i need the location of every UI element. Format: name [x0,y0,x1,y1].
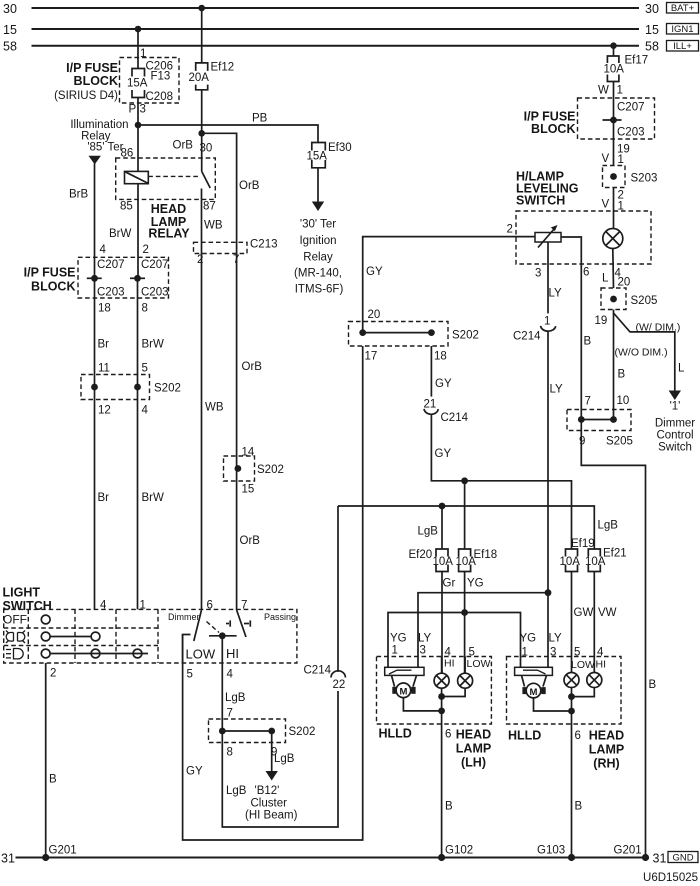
dimmer HI contact bar with node [209,620,237,639]
svg-text:Br: Br [98,492,110,504]
svg-text:S205: S205 [631,295,658,307]
svg-text:C203: C203 [97,287,125,299]
svg-text:BrW: BrW [142,492,165,504]
relay HEAD LAMP RELAY dashed box [116,158,216,199]
wire S203 to indicator lamp [613,188,615,229]
fuse Ef30 15A [307,142,352,168]
svg-text:(W/ DIM.): (W/ DIM.) [636,322,681,334]
svg-text:17: 17 [365,351,378,363]
svg-text:Ef20: Ef20 [409,549,433,561]
svg-text:LIGHT: LIGHT [3,586,41,600]
icon: headlamp [6,649,23,659]
svg-text:2: 2 [507,224,513,236]
light switch / head lamp switch dashed box [4,609,297,663]
splice bridge and nodes [359,329,434,336]
connector C214 pin 1 [513,316,556,343]
svg-text:20: 20 [618,277,631,289]
svg-text:6: 6 [445,729,451,741]
label LIGHT SWITCH [3,586,52,614]
svg-text:15: 15 [3,23,17,37]
wire GY to Ef18 [464,481,466,549]
wire B: leveling pin 6 down to S205 pin 7 [580,264,582,420]
svg-text:1: 1 [522,647,528,659]
svg-text:18: 18 [98,303,111,315]
svg-text:GY: GY [435,378,452,390]
LH head lamp dashed box [377,657,492,725]
passing switch arm [237,610,246,637]
wires lamps to pin 6 with nodes [438,688,465,724]
LH HI beam lamp [434,657,449,689]
dimmer switch arm [194,610,202,641]
svg-text:HI: HI [596,659,607,671]
icon: parking lamps [6,631,25,644]
wire YG: Ef18 down to LH LOW lamp [464,572,466,674]
svg-text:15A: 15A [127,78,148,90]
node: G201 ground dot (right) [614,845,650,862]
svg-text:3: 3 [535,268,541,280]
svg-text:30: 30 [200,143,213,155]
svg-text:L: L [602,273,609,285]
svg-text:Cluster: Cluster [251,798,288,810]
svg-text:BrW: BrW [142,339,165,351]
svg-text:31: 31 [1,851,15,865]
wire L to dimmer control switch (W/ DIM.) [614,313,675,391]
arrow to illumination relay (up) [89,156,101,165]
splice S203 dashed box [603,166,658,188]
splice bridge and nodes [578,416,617,423]
svg-text:1: 1 [140,600,146,612]
HLLD motor [392,683,415,698]
svg-text:1: 1 [392,645,398,657]
wire BrW C207 to light switch pin 1 [137,278,139,609]
svg-text:Ef12: Ef12 [211,62,235,74]
svg-text:HEAD: HEAD [151,202,186,216]
svg-text:ILL+: ILL+ [673,41,692,52]
svg-text:30: 30 [645,2,659,16]
svg-text:2: 2 [143,244,149,256]
svg-text:HEAD: HEAD [456,728,491,742]
GND terminal box [668,852,698,864]
wire and arrow to B12 cluster [266,731,295,781]
wire GY S202-20 up and right to leveling switch pin 2 [363,237,535,333]
labels HI / LOW [444,658,491,671]
svg-text:Gr: Gr [443,578,456,590]
node: G201 ground dot (light switch) [42,845,77,862]
svg-text:1: 1 [544,316,550,328]
svg-text:IGN1: IGN1 [671,24,693,35]
svg-text:SWITCH: SWITCH [3,599,52,613]
svg-text:BrW: BrW [109,228,132,240]
wire bus58 to Ef17 [613,46,615,56]
fuse Ef18 10A [456,549,498,572]
labels YG 1 / LY 3 [520,633,563,659]
svg-text:5: 5 [187,669,193,681]
relay linkage (dashed) [148,175,200,177]
svg-text:LAMP: LAMP [456,742,491,756]
svg-text:9: 9 [579,436,585,448]
rheostat (leveling control) [535,225,561,248]
svg-text:LOW: LOW [467,658,491,670]
wire LY: C214-1 down to RH pin 3 [547,330,549,667]
svg-text:19: 19 [595,315,608,327]
svg-text:20: 20 [368,309,381,321]
svg-text:(LH): (LH) [461,756,486,770]
wire GY S202-18 down to C214-21 [430,346,432,397]
wire F13 to PB node, pin P3 [129,98,146,126]
bus line 58 (ILL+) [3,40,659,54]
labels YG 1 / LY 3 [390,633,432,657]
label HEAD LAMP (RH) [589,729,624,771]
svg-text:'1': '1' [670,401,681,413]
node: OrB branch junction [198,130,205,137]
wire GY C214-21 down, right to Ef19 feed [431,414,571,549]
wire label W, pin 1 [598,85,623,97]
svg-text:HI: HI [226,646,239,661]
node: splice dot on BrW [134,384,141,391]
I/P FUSE BLOCK label (left) [24,266,76,294]
svg-text:RELAY: RELAY [148,227,190,241]
node: splice dot on OrB [235,465,242,472]
svg-text:B: B [618,369,626,381]
svg-text:HI: HI [444,658,455,670]
svg-text:8: 8 [142,303,148,315]
svg-text:18: 18 [434,351,447,363]
svg-text:12: 12 [98,405,111,417]
svg-text:LY: LY [418,633,432,645]
svg-text:G102: G102 [445,845,473,857]
svg-text:SWITCH: SWITCH [516,194,565,208]
wire GW: Ef19 to RH LOW lamp [571,572,573,673]
svg-text:GY: GY [366,266,383,278]
svg-text:LgB: LgB [274,753,295,765]
svg-text:F13: F13 [151,71,171,83]
svg-text:YG: YG [520,633,537,645]
svg-text:G201: G201 [614,845,642,857]
svg-text:P: P [129,104,137,116]
bus line 30 (BAT+) [3,2,659,16]
fuse Ef21 10A [585,548,627,572]
internal dashed dividers [4,609,158,663]
svg-text:LY: LY [550,384,564,396]
svg-text:5: 5 [574,647,580,659]
svg-text:Ef17: Ef17 [625,55,649,67]
splice S202 (GY) dashed box [349,322,449,347]
I/P FUSE BLOCK label (right) [524,110,576,137]
svg-text:OrB: OrB [173,140,194,152]
wire 85 from coil down to C207 pin 2 [137,184,139,279]
svg-text:4: 4 [227,669,234,681]
svg-text:I/P FUSE: I/P FUSE [66,61,118,75]
svg-text:LgB: LgB [226,785,247,797]
splice S202 (Br/BrW) dashed box [81,375,150,400]
svg-text:2: 2 [197,254,203,266]
node: tap on bus 58 for Ef17 [610,42,617,49]
fuse Ef17 10A [604,55,649,82]
svg-text:6: 6 [207,600,213,612]
wire motor to pin 6 node [403,698,441,711]
svg-text:6: 6 [575,730,581,742]
svg-text:C207: C207 [141,259,169,271]
svg-text:LgB: LgB [598,520,619,532]
pin 4 / 5 labels [445,647,475,659]
wire LgB distribution to Ef21 [338,506,594,549]
switch contacts: headlamp row with bridge [41,649,148,658]
svg-text:4: 4 [142,405,149,417]
wire LgB: HI contact down to S202 splice [221,636,223,731]
svg-text:YG: YG [390,633,407,645]
svg-text:S202: S202 [289,726,316,738]
svg-text:GY: GY [435,448,452,460]
node: LY branch junction [545,589,552,596]
svg-text:B: B [445,801,453,813]
svg-text:Control: Control [656,430,693,442]
svg-text:7: 7 [227,708,233,720]
svg-text:C207: C207 [97,259,125,271]
wire LY branch to LH pin 3 [418,593,548,668]
svg-text:'B12': 'B12' [255,785,280,797]
svg-text:1: 1 [617,85,623,97]
arrow to dimmer control switch [669,391,681,401]
wire label V, pin 1 (below S203) [602,199,624,213]
svg-text:10A: 10A [604,64,625,76]
svg-text:W: W [598,85,609,97]
svg-text:8: 8 [227,747,233,759]
svg-text:2: 2 [50,668,56,680]
bus line 15 (IGN1) [3,23,659,37]
svg-text:C203: C203 [141,287,169,299]
svg-text:4: 4 [100,600,107,612]
wire VW: Ef21 to RH HI lamp [593,572,595,673]
svg-text:58: 58 [645,40,659,54]
svg-text:22: 22 [333,679,346,691]
svg-text:6: 6 [583,267,589,279]
svg-text:BAT+: BAT+ [671,3,695,14]
svg-text:7: 7 [241,600,247,612]
svg-text:C214: C214 [513,331,541,343]
HLLD motor [522,683,545,698]
svg-text:OFF: OFF [3,613,27,627]
node: G103 ground dot [537,845,575,862]
RH HI beam lamp [587,673,602,688]
label Illumination Relay '85' Ter [70,119,128,154]
svg-text:GND: GND [672,853,693,864]
svg-text:C213: C213 [250,239,278,251]
wire OrB S202 to passing pin 7 [236,254,238,611]
wire rheostat wiper to pin 3 / C214-1 [547,242,549,313]
relay coil [125,171,149,183]
svg-text:4: 4 [597,647,604,659]
splice S205 dashed box (upper) [601,288,657,310]
wire lamp to pin 4 / S205 [612,249,615,289]
svg-text:10: 10 [617,395,630,407]
svg-text:(RH): (RH) [593,757,619,771]
svg-text:L: L [678,363,685,375]
wire PB to Ef30 [138,113,318,143]
relay contact arm 30-87 [202,171,211,199]
switch contacts: OFF row [41,615,50,624]
svg-text:21: 21 [424,399,437,411]
svg-text:LOW: LOW [571,659,595,671]
svg-text:5: 5 [142,363,148,375]
svg-text:V: V [602,199,610,211]
svg-text:B: B [649,679,657,691]
svg-text:Dimmer: Dimmer [168,612,200,622]
svg-text:Switch: Switch [658,442,692,454]
svg-text:B: B [49,774,57,786]
svg-text:S205: S205 [606,436,633,448]
svg-text:B: B [584,336,592,348]
HLLD actuator [515,667,553,686]
label HEAD LAMP RELAY [148,202,190,241]
svg-text:V: V [602,153,610,165]
wire B: RH lamp to G103 [572,724,583,858]
svg-text:C214: C214 [441,412,469,424]
RH head lamp dashed box [507,657,622,725]
svg-text:C208: C208 [146,91,174,103]
connector C207/C203 left (BrB wire) [87,259,125,299]
node: YG junction [461,609,468,616]
node: tap on bus 30 for fuse Ef12 [198,5,205,12]
wire LgB: S202-8 down, right, up to C214-22 [222,691,338,827]
RH LOW beam lamp [564,673,579,688]
svg-text:LY: LY [549,288,563,300]
svg-text:3: 3 [420,645,426,657]
wire LgB to Ef20 [441,506,443,549]
switch contacts: parking row with bridge [41,632,100,641]
svg-text:(HI Beam): (HI Beam) [245,810,298,822]
svg-text:YG: YG [467,578,484,590]
bus line 31 (GND) [1,851,666,865]
wire Br C207 to light switch pin 4 [94,278,96,609]
svg-text:31: 31 [653,851,667,865]
node: tap on bus 15 for fuse F13 [135,26,142,33]
pin 5 / 4 labels [574,647,604,659]
wire motor to pin 6 node [534,698,572,711]
wire bus15 to fuse F13 [137,29,139,69]
svg-text:10A: 10A [433,556,454,568]
svg-text:15A: 15A [307,151,328,163]
svg-text:Dimmer: Dimmer [655,418,695,430]
wire YG distribution LH pin 1 to RH pin 1 [388,613,521,668]
svg-text:G201: G201 [49,845,77,857]
label H/LAMP LEVELING SWITCH [516,170,579,208]
svg-text:Passing: Passing [264,612,296,622]
IGN1 terminal box [667,24,699,36]
svg-text:BLOCK: BLOCK [531,122,575,136]
HLLD actuator [385,667,424,686]
svg-text:(MR-140,: (MR-140, [294,268,342,280]
svg-text:LgB: LgB [418,526,439,538]
svg-text:PB: PB [252,113,268,125]
wire S205 down to S205 pin 10 [613,310,615,420]
svg-text:I/P FUSE: I/P FUSE [24,266,76,280]
svg-text:'30' Ter: '30' Ter [300,219,336,231]
svg-text:ITMS-6F): ITMS-6F) [295,284,344,296]
svg-text:B: B [575,801,583,813]
svg-text:C203: C203 [617,127,645,139]
I/P fuse block dashed box (right) [578,98,655,139]
svg-text:Relay: Relay [303,252,333,264]
arrow to '30' Ter Ignition Relay [312,202,324,212]
svg-text:Ef18: Ef18 [474,549,498,561]
svg-text:C214: C214 [304,665,332,677]
svg-text:58: 58 [3,40,17,54]
svg-text:OrB: OrB [240,535,261,547]
connector C214 pin 22 [331,506,345,691]
svg-text:OrB: OrB [239,180,260,192]
node: splice dot on Br [91,384,98,391]
svg-text:30: 30 [3,2,17,16]
svg-text:Illumination: Illumination [70,119,128,131]
svg-text:BLOCK: BLOCK [31,280,75,294]
H/LAMP leveling switch dashed box [516,211,651,264]
splice S202 (OrB) dashed box [224,456,255,481]
node: G102 ground dot [438,845,473,862]
svg-text:Ef21: Ef21 [603,548,627,560]
svg-text:U6D15025: U6D15025 [643,872,698,884]
wire OrB branch to the right and down to C213 pin 7 [202,133,237,253]
svg-text:15: 15 [645,23,659,37]
svg-text:7: 7 [585,396,591,408]
connector C207/C203 right (BrW wire) [130,259,169,299]
svg-text:GW: GW [574,607,594,619]
wire GY: LOW contact down, right, up to S202-17 [183,346,363,840]
ILL+ terminal box [667,41,699,53]
label LgB 'B12' Cluster (HI Beam) [226,785,298,822]
I/P fuse block dashed box (C207/C203) [78,257,169,298]
svg-text:M: M [530,687,538,698]
label HEAD LAMP (LH) [456,728,491,770]
svg-text:S203: S203 [631,173,658,185]
svg-text:4: 4 [100,244,107,256]
node: PB junction [135,122,142,129]
svg-text:HLLD: HLLD [508,729,541,743]
connector C207/C203 (right block) [603,102,645,139]
splice S202 (LgB) dashed box [209,719,286,743]
dimmer linkage dashes [207,622,220,633]
svg-text:M: M [399,687,407,698]
wire Ef30 to ignition relay arrow [317,168,319,202]
svg-text:LgB: LgB [225,692,246,704]
svg-text:11: 11 [98,363,110,375]
svg-text:S202: S202 [452,330,479,342]
svg-text:'85' Ter: '85' Ter [87,142,123,154]
fuse F13 15A [127,69,148,98]
svg-text:LOW: LOW [186,647,216,662]
svg-text:G103: G103 [537,845,565,857]
LH LOW beam lamp [458,657,473,689]
wire Gr: Ef20 to LH HI lamp [441,572,443,674]
wire bus30 to Ef12 [201,8,203,63]
svg-text:15: 15 [242,484,255,496]
wire BrB arrow to C207 pin 4 [69,164,95,279]
svg-text:(SIRIUS D4): (SIRIUS D4) [54,90,118,102]
svg-text:GY: GY [186,766,203,778]
svg-text:85: 85 [120,201,133,213]
wire rheostat to pin 6 [561,237,581,264]
svg-text:Ef30: Ef30 [328,142,352,154]
svg-text:S202: S202 [154,383,181,395]
fuse Ef19 10A [560,538,595,572]
splice S205 dashed box (lower) [567,410,631,431]
svg-text:Ignition: Ignition [299,235,336,247]
wire B: LH lamp to G102 [442,724,453,858]
svg-text:87: 87 [203,201,216,213]
wire B: S205-9 down, right, down to G201 [581,420,645,858]
node: GY branch to Ef18 [461,477,468,484]
svg-text:C207: C207 [617,102,645,114]
wire WB C213-2 to dimmer pin 6 [201,254,203,611]
